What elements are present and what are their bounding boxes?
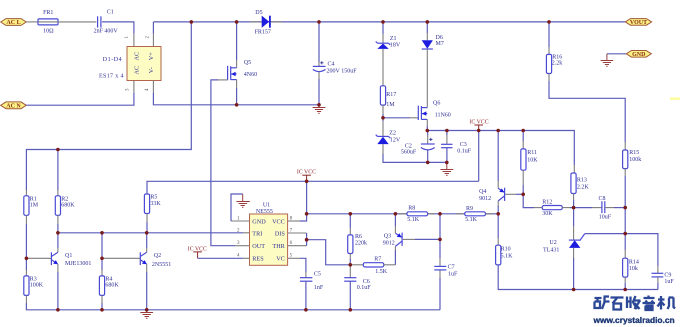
svg-text:ES17 x 4: ES17 x 4 (99, 74, 124, 80)
resistor R6 (348, 214, 367, 265)
wire R15 bottom vertical (624, 169, 626, 176)
resistor R13 (571, 173, 590, 208)
port GND (626, 51, 651, 59)
wire TL431 anode down (573, 248, 575, 258)
capacitor C1 (94, 9, 119, 34)
svg-text:1uF: 1uF (448, 272, 458, 278)
wire Q6 source to IC VCC rail (426, 119, 428, 126)
ground symbol below C3 (440, 162, 453, 175)
svg-text:FR157: FR157 (255, 30, 271, 36)
svg-text:5.1K: 5.1K (465, 217, 478, 223)
resistor R10 (496, 245, 513, 265)
pin 8 VCC (288, 220, 300, 222)
transistor Q6 (418, 101, 451, 120)
svg-text:R5: R5 (150, 195, 157, 201)
wire feed rail y213.8 (307, 213, 499, 215)
bridge rectifier D1-D4 (99, 47, 161, 81)
svg-text:C9: C9 (664, 272, 671, 278)
net label IC VCC (470, 120, 489, 131)
wire collector rail to NE555 TRI (58, 232, 243, 234)
pin 7 DIS (288, 232, 307, 234)
wire Q4 emitter from IC VCC rail (497, 131, 499, 182)
svg-text:9012: 9012 (383, 241, 395, 247)
svg-text:220k: 220k (355, 240, 367, 246)
wire Q4 base to R11 node (505, 193, 516, 195)
wire C1 to bridge pin1 (102, 22, 134, 34)
resistor R11 (521, 131, 538, 195)
wire R5 bottom (146, 214, 148, 223)
capacitor C3 (441, 131, 472, 163)
svg-text:V+: V+ (148, 52, 155, 60)
wire R1 bottom to base node (25, 215, 27, 224)
wire IC VCC rail (427, 131, 574, 166)
wire x191 vertical to left bias (26, 22, 191, 190)
svg-text:10K: 10K (527, 157, 538, 163)
wire pin1 ground loop (231, 194, 243, 221)
svg-text:Q1: Q1 (65, 253, 72, 259)
svg-text:18V: 18V (390, 43, 401, 49)
svg-text:1.5K: 1.5K (375, 269, 388, 275)
wire C5 to bottom rail (305, 281, 307, 310)
svg-text:11N60: 11N60 (435, 113, 451, 119)
watermark logo (595, 296, 676, 311)
wire R10 bottom to right rail (498, 265, 658, 290)
svg-text:AC: AC (134, 66, 141, 75)
pin 2 of bridge (152, 34, 154, 47)
svg-text:AC N: AC N (6, 104, 21, 110)
pin 1 GND (231, 220, 250, 222)
svg-text:R9: R9 (466, 206, 473, 212)
svg-text:VCC: VCC (272, 218, 285, 225)
svg-text:680K: 680K (61, 203, 75, 209)
svg-text:R6: R6 (355, 234, 362, 240)
wire pin5 to C5 (300, 258, 306, 272)
svg-text:Q5: Q5 (244, 60, 251, 66)
svg-text:9012: 9012 (479, 196, 491, 202)
ground symbol at V- rail (313, 105, 326, 114)
svg-text:R12: R12 (542, 199, 552, 205)
wire Q5 source down (236, 80, 238, 88)
wire pin8 VCC up to branch (300, 181, 307, 221)
svg-text:NE555: NE555 (256, 209, 273, 215)
wire bottom rail up to C7 (439, 278, 441, 310)
resistor R5 (144, 194, 161, 214)
wire up to IC VCC rail (478, 131, 480, 182)
svg-text:D5: D5 (255, 10, 262, 16)
svg-text:C7: C7 (448, 265, 455, 271)
svg-text:0.1uF: 0.1uF (357, 285, 372, 291)
svg-text:2.2k: 2.2k (552, 61, 563, 67)
resistor R9 (456, 206, 493, 223)
svg-text:R4: R4 (105, 276, 112, 282)
svg-text:R17: R17 (386, 92, 396, 98)
svg-text:2.2K: 2.2K (577, 184, 590, 190)
wire Q3 emitter up (394, 226, 396, 233)
svg-text:2nF 400V: 2nF 400V (94, 28, 119, 34)
svg-text:FR1: FR1 (43, 10, 53, 16)
svg-text:R14: R14 (629, 259, 639, 265)
svg-text:R10: R10 (501, 247, 511, 253)
svg-text:D1-D4: D1-D4 (103, 57, 122, 63)
zener Z2 (376, 121, 401, 144)
diode U2 TL431 (543, 208, 585, 254)
svg-text:TRI: TRI (252, 230, 262, 237)
wire R2 bottom (57, 215, 59, 224)
svg-text:680K: 680K (105, 283, 119, 289)
ground symbol on bottom rail (140, 310, 153, 319)
svg-text:VC: VC (276, 256, 285, 263)
net label IC VCC at pin4 (188, 246, 207, 258)
resistor R2 (55, 150, 75, 216)
resistor R16 (546, 22, 562, 74)
wire bridge V- to ground rail (153, 93, 319, 105)
resistor R14 (623, 258, 639, 289)
capacitor C9 (652, 272, 675, 289)
svg-text:VOUT: VOUT (630, 20, 647, 26)
wire C7 node vertical (439, 214, 441, 258)
wire x102 vertical (101, 233, 103, 258)
svg-text:R8: R8 (408, 206, 415, 212)
svg-text:10Ω: 10Ω (43, 28, 54, 34)
svg-text:R15: R15 (629, 150, 639, 156)
resistor R7 (350, 256, 395, 275)
pin 4 of bridge (152, 81, 154, 93)
wire R17 to Z2 node (382, 105, 384, 114)
wire FR1 to C1 (58, 21, 96, 23)
svg-text:560uF: 560uF (401, 149, 417, 155)
wire Q4 base node down to R12 (523, 194, 534, 207)
svg-text:AC L: AC L (6, 20, 20, 26)
wire Q5 drain (236, 22, 238, 60)
wire R3 bottom to rail (25, 295, 27, 303)
net label IC VCC at VCC branch (297, 170, 316, 182)
wire Q1 emitter (57, 264, 59, 272)
wire Q3 collector down to R7 (394, 250, 396, 265)
wire Q4 collector down (497, 201, 499, 206)
svg-text:Z2: Z2 (389, 130, 396, 136)
svg-text:AC: AC (134, 52, 141, 61)
svg-text:C3: C3 (460, 142, 467, 148)
svg-text:Q6: Q6 (433, 101, 440, 107)
transistor Q3 (383, 233, 402, 247)
wire R16 to R15 (548, 74, 550, 82)
wire Q5 gate to NE555 OUT (218, 79, 228, 81)
fuse FR1 (38, 10, 58, 34)
svg-text:Q3: Q3 (384, 234, 391, 240)
svg-text:1nF: 1nF (314, 285, 324, 291)
resistor R17 (380, 86, 396, 108)
port AC L (1, 19, 27, 27)
wire pins6/7 to R6 bottom node (307, 240, 351, 265)
op-amp timer U1 NE555 box (250, 202, 288, 265)
svg-text:1M: 1M (386, 102, 395, 108)
svg-text:100k: 100k (629, 157, 641, 163)
transistor Q2 (102, 252, 171, 268)
pin 4 RES (243, 257, 250, 259)
capacitor C6 (344, 265, 371, 310)
wire Q2 emitter (146, 264, 148, 272)
svg-text:R7: R7 (374, 256, 381, 262)
svg-text:R11: R11 (527, 150, 537, 156)
svg-text:Q2: Q2 (154, 253, 161, 259)
svg-text:1M: 1M (30, 203, 39, 209)
pin 3 of bridge (133, 81, 135, 93)
svg-text:R1: R1 (30, 196, 37, 202)
wire pin stubs of D5 (250, 21, 262, 23)
svg-text:30K: 30K (542, 211, 553, 217)
zener Z1 (376, 22, 401, 49)
svg-text:U2: U2 (549, 240, 556, 246)
wire Q3 base to C7 node (403, 238, 415, 240)
wire Z2 to minor ground rail (382, 144, 384, 154)
wire GND port (607, 53, 626, 55)
svg-text:R13: R13 (577, 178, 587, 184)
transistor Q5 (228, 60, 258, 80)
svg-text:200V 150uF: 200V 150uF (327, 68, 358, 74)
svg-text:Q4: Q4 (479, 189, 486, 195)
svg-text:R3: R3 (30, 276, 37, 282)
ground symbol at NE555 pin1 (236, 194, 249, 207)
wire bridge V+ up to rail (152, 22, 154, 34)
transistor Q4 (479, 188, 505, 202)
wire Q2 collector (146, 233, 148, 248)
resistor R12 (542, 199, 573, 217)
wire pins 6-7 tie (306, 233, 308, 246)
svg-text:MJE13001: MJE13001 (65, 261, 91, 267)
wire R5 top to IC VCC branch (147, 181, 479, 194)
wire TL431 ref to C9 (585, 234, 658, 266)
resistor R4 (99, 258, 119, 310)
wire ACL to FR1 (26, 21, 38, 23)
capacitor C4 (313, 22, 357, 105)
svg-text:TL431: TL431 (543, 248, 559, 254)
svg-text:D6: D6 (436, 35, 443, 41)
svg-text:C5: C5 (314, 272, 321, 278)
capacitor C5 (300, 272, 324, 291)
capacitor C7 (434, 265, 458, 278)
svg-text:M7: M7 (436, 41, 444, 47)
svg-text:RES: RES (252, 256, 264, 263)
svg-text:C8: C8 (599, 196, 606, 202)
wire pin4 to IC VCC tick (198, 257, 243, 259)
svg-text:Z1: Z1 (390, 36, 397, 42)
wire ACN to bridge pin3 (26, 93, 134, 106)
svg-text:2N5551: 2N5551 (152, 262, 171, 268)
svg-text:5.1K: 5.1K (501, 253, 513, 259)
yellow mark at right edge (670, 97, 680, 100)
svg-text:0.1uF: 0.1uF (457, 149, 472, 155)
svg-text:10uF: 10uF (599, 214, 612, 220)
resistor R15 (623, 150, 642, 169)
svg-text:GND: GND (632, 52, 646, 58)
svg-text:OUT: OUT (252, 243, 265, 250)
svg-text:R2: R2 (61, 196, 68, 202)
port AC N (1, 102, 27, 110)
port VOUT (625, 19, 651, 27)
capacitor C8 (574, 196, 626, 220)
ground symbol at GND port (601, 54, 614, 67)
transistor Q1 (26, 252, 91, 267)
wire D6 to Q6 drain (426, 49, 428, 108)
svg-text:4N60: 4N60 (244, 72, 257, 78)
resistor R1 (24, 196, 39, 216)
svg-text:DIS: DIS (275, 230, 286, 237)
svg-text:33K: 33K (150, 201, 161, 207)
svg-text:THR: THR (272, 243, 285, 250)
pin 5 VC (288, 257, 300, 259)
svg-text:V-: V- (148, 67, 155, 73)
resistor R3 (24, 258, 44, 295)
resistor R8 (399, 206, 435, 224)
svg-text:C1: C1 (107, 9, 114, 15)
wire main top rail (153, 21, 625, 23)
svg-text:10k: 10k (629, 266, 638, 272)
wire Q1 collector (57, 233, 59, 248)
diode D5 (255, 10, 271, 35)
svg-text:GND: GND (252, 218, 266, 225)
svg-text:5.1K: 5.1K (407, 217, 420, 223)
svg-text:C4: C4 (328, 62, 335, 68)
pin 1 of bridge (133, 34, 135, 47)
svg-text:www.crystalradio.cn: www.crystalradio.cn (593, 315, 675, 325)
svg-text:1uF: 1uF (664, 279, 674, 285)
wire gate of Q6 (383, 117, 410, 119)
pin 6 THR (288, 245, 307, 247)
svg-text:100K: 100K (30, 283, 44, 289)
capacitor C2 (401, 131, 435, 163)
svg-text:12V: 12V (390, 137, 401, 143)
svg-text:U1: U1 (263, 202, 270, 208)
diode D6 (422, 22, 444, 49)
wire Z1 to R17 (382, 49, 384, 86)
